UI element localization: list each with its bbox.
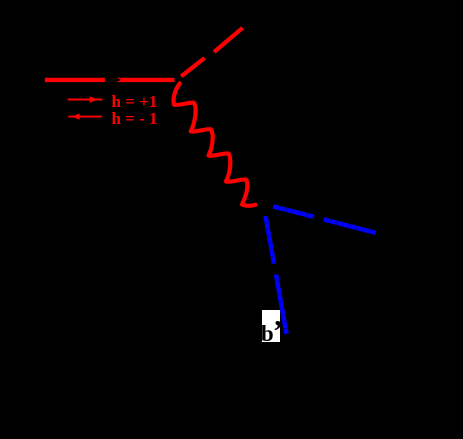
outgoing blue dashed line to the right, dash 1	[273, 206, 314, 217]
arrow notch on fermion line segment 2	[116, 78, 121, 83]
outgoing blue dashed line downward, dash 2	[276, 275, 287, 335]
outgoing red dashed diagonal line, dash A	[181, 58, 204, 76]
incoming fermion line (thick red dashed horizontal), segment 1	[45, 78, 105, 82]
helicity arrow h=+1 (right-pointing)	[68, 96, 103, 102]
label h = +1	[112, 93, 158, 110]
outgoing blue dashed line to the right, dash 2	[324, 219, 376, 232]
b-prime label box	[262, 310, 281, 342]
incoming fermion line, segment 2	[117, 78, 175, 82]
photon wavy line (red scalloped)	[174, 83, 256, 205]
outgoing blue dashed line downward, dash 1	[266, 216, 275, 264]
label h = -1	[112, 110, 158, 127]
helicity arrow h=-1 (left-pointing)	[68, 113, 102, 119]
outgoing red dashed diagonal line, dash B	[214, 28, 243, 52]
